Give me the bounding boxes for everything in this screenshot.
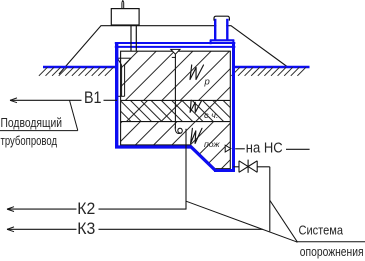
- leader from drain to emptying system: [270, 200, 298, 242]
- floor: [115, 145, 191, 148]
- level vertical line: [174, 54, 176, 128]
- hatch middle zone: [110, 101, 251, 122]
- leader from overflow to emptying system: [186, 201, 297, 242]
- svg-text:на НС: на НС: [246, 141, 283, 157]
- hatch Wр zone: [16, 51, 266, 100]
- vent pipe on roof (blue): [214, 19, 216, 41]
- svg-text:пож: пож: [204, 139, 221, 149]
- line after на НС: [286, 148, 310, 150]
- access pipe walls from box through roof: [130, 25, 132, 51]
- svg-text:р: р: [204, 77, 210, 88]
- water band boundary 2: [121, 121, 231, 123]
- K2 line right: [99, 208, 187, 210]
- left wall: [115, 42, 118, 147]
- svg-text:Подводящий: Подводящий: [1, 115, 63, 130]
- svg-text:трубопровод: трубопровод: [1, 133, 58, 148]
- svg-text:К2: К2: [77, 200, 95, 218]
- svg-text:К3: К3: [77, 220, 95, 238]
- svg-text:В1: В1: [84, 89, 102, 107]
- B1 line: [10, 99, 82, 101]
- interior black lining outline: [121, 51, 231, 169]
- water band boundary 1: [121, 99, 231, 101]
- stub to на НС label: [235, 148, 245, 150]
- K2 line: [7, 208, 77, 210]
- tank blue outline: roof slab top line: [115, 42, 236, 44]
- hatch Wпож zone: [38, 122, 268, 169]
- level tick: [172, 56, 176, 58]
- ground hatch left: [39, 67, 114, 76]
- floor slope to sump: [190, 146, 216, 171]
- pigtail curl at gauge bottom: [175, 127, 182, 134]
- leader shelf line: [296, 241, 365, 243]
- vent pipe interior mask: [216, 17, 226, 40]
- volume label Wр: [190, 65, 210, 88]
- K3 line right: [99, 228, 263, 230]
- K3 arrow: [7, 227, 14, 232]
- overflow pipe down to К2: [185, 129, 187, 209]
- svg-text:опорожнения: опорожнения: [300, 245, 364, 259]
- suction outlet triangle to NS: [225, 145, 231, 152]
- B1 dash to wall: [104, 99, 118, 101]
- svg-text:Система: Система: [299, 224, 344, 238]
- underline of Подводящий: [0, 130, 78, 132]
- ground line left (blue): [43, 66, 115, 69]
- B1 arrow: [10, 98, 17, 103]
- manhole box on mound: [111, 9, 139, 25]
- ground hatch right: [231, 67, 306, 76]
- gate valve: [239, 160, 257, 173]
- drain pipe from sump through wall: [233, 166, 239, 168]
- embankment mound outline: [59, 26, 287, 74]
- drain pipe to drop: [257, 166, 270, 168]
- leader to supply pipeline label: [70, 100, 78, 130]
- roof slab bottom line: [115, 46, 236, 48]
- manhole vent stub: [122, 1, 124, 9]
- volume label Wпож: [191, 128, 221, 149]
- max level symbol (nabla): [171, 49, 180, 54]
- ground line right (blue): [234, 66, 310, 69]
- sump bottom: [214, 169, 235, 172]
- volume label Wс.ч.: [190, 100, 218, 120]
- drain drop pipe: [269, 167, 271, 232]
- svg-text:с.ч.: с.ч.: [204, 111, 219, 120]
- K2 arrow: [7, 207, 14, 212]
- right wall: [232, 42, 235, 172]
- inlet riser with bell mouth: [115, 58, 131, 96]
- K3 line: [7, 228, 77, 230]
- vent cap (black): [214, 16, 229, 20]
